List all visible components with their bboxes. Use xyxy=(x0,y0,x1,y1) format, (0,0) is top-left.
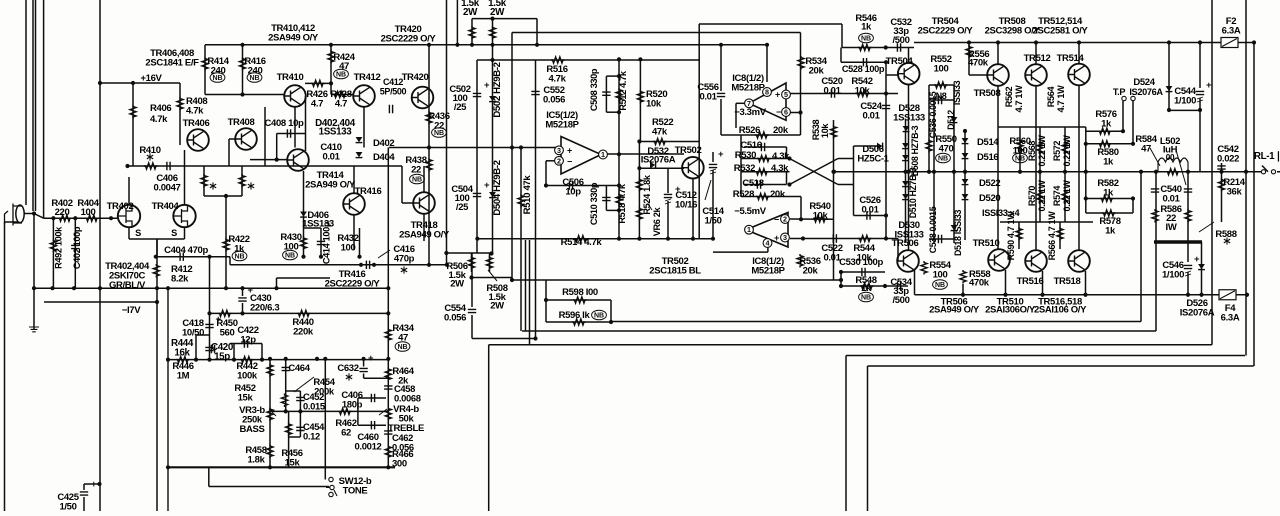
svg-text:10k: 10k xyxy=(857,253,873,264)
svg-text:2W: 2W xyxy=(490,301,504,312)
svg-text:R510 47k: R510 47k xyxy=(522,175,533,215)
svg-text:R524 1.8k: R524 1.8k xyxy=(642,174,652,214)
svg-text:GR/BL/V: GR/BL/V xyxy=(109,280,146,291)
svg-text:3: 3 xyxy=(557,146,561,155)
svg-text:IW: IW xyxy=(1166,222,1177,233)
svg-text:D510 HZ7B-3: D510 HZ7B-3 xyxy=(908,167,918,218)
svg-text:BASS: BASS xyxy=(240,424,265,435)
svg-text:47: 47 xyxy=(1141,144,1151,155)
svg-text:/25: /25 xyxy=(456,202,469,213)
svg-text:/500: /500 xyxy=(892,35,909,46)
svg-text:16k: 16k xyxy=(174,348,190,359)
svg-text:4.3k: 4.3k xyxy=(772,151,790,162)
svg-text:300: 300 xyxy=(392,459,407,470)
svg-text:R568: R568 xyxy=(1027,141,1037,161)
svg-text:TR510: TR510 xyxy=(973,238,1000,249)
svg-text:240: 240 xyxy=(248,66,263,77)
svg-text:C508 330p: C508 330p xyxy=(589,68,599,111)
svg-text:+16V: +16V xyxy=(140,73,162,84)
svg-text:100: 100 xyxy=(933,270,948,281)
svg-text:100: 100 xyxy=(1013,146,1028,157)
svg-text:220: 220 xyxy=(55,207,70,218)
svg-text:6: 6 xyxy=(784,108,788,117)
svg-text:M5218P: M5218P xyxy=(545,120,579,131)
svg-text:2SA949 O/Y: 2SA949 O/Y xyxy=(929,304,980,315)
svg-text:D520: D520 xyxy=(979,193,1000,204)
svg-text:2SA949 O/Y: 2SA949 O/Y xyxy=(399,230,450,241)
svg-text:1.8k: 1.8k xyxy=(247,455,265,466)
svg-text:22: 22 xyxy=(411,165,421,176)
svg-text:1k: 1k xyxy=(1103,188,1114,199)
svg-text:−5.5mV: −5.5mV xyxy=(734,206,766,217)
svg-text:R596 Ik: R596 Ik xyxy=(559,310,591,321)
svg-text:R564: R564 xyxy=(1046,85,1056,107)
svg-text:2W: 2W xyxy=(490,7,505,18)
svg-text:560: 560 xyxy=(220,328,235,339)
svg-text:D404: D404 xyxy=(373,152,395,163)
svg-text:C518: C518 xyxy=(742,178,763,189)
svg-text:TR514: TR514 xyxy=(1057,53,1085,64)
svg-text:C528 100p: C528 100p xyxy=(842,64,885,74)
svg-text:240: 240 xyxy=(211,66,226,77)
svg-text:C536 0.0015: C536 0.0015 xyxy=(928,91,938,138)
svg-text:10/50: 10/50 xyxy=(182,328,204,339)
svg-text:2SC1815 BL: 2SC1815 BL xyxy=(649,266,701,277)
svg-text:100: 100 xyxy=(341,243,356,254)
svg-text:+: + xyxy=(718,149,724,160)
svg-text:1/100: 1/100 xyxy=(1174,96,1196,107)
svg-text:3: 3 xyxy=(783,233,787,242)
svg-text:0.01: 0.01 xyxy=(322,152,340,163)
svg-text:2SA949 O/Y: 2SA949 O/Y xyxy=(305,180,356,191)
svg-text:0.015: 0.015 xyxy=(303,401,325,412)
svg-text:M5218P: M5218P xyxy=(731,83,765,94)
svg-text:100: 100 xyxy=(284,242,299,253)
svg-text:R518 4.7k: R518 4.7k xyxy=(617,183,627,223)
svg-text:TONE: TONE xyxy=(343,486,368,497)
svg-text:4.7k: 4.7k xyxy=(548,74,566,85)
svg-text:D518 ISSI33: D518 ISSI33 xyxy=(953,210,963,256)
svg-text:0.0068: 0.0068 xyxy=(394,393,421,404)
svg-text:2: 2 xyxy=(557,156,561,165)
svg-text:62: 62 xyxy=(341,428,351,439)
svg-text:TR402: TR402 xyxy=(107,201,134,212)
svg-text:0.12: 0.12 xyxy=(303,431,320,442)
svg-text:S: S xyxy=(135,228,141,238)
svg-text:0.01: 0.01 xyxy=(699,92,717,103)
svg-text:R512 4.7k: R512 4.7k xyxy=(618,70,628,110)
svg-text:1SS133: 1SS133 xyxy=(893,113,925,124)
svg-text:10k: 10k xyxy=(820,123,830,139)
svg-text:TR406: TR406 xyxy=(183,118,210,129)
svg-text:1k: 1k xyxy=(1101,119,1112,130)
svg-text:C404 470p: C404 470p xyxy=(164,245,208,256)
svg-text:36k: 36k xyxy=(1227,187,1243,198)
svg-text:R588: R588 xyxy=(1215,229,1236,240)
svg-text:4.7 1W: 4.7 1W xyxy=(1056,85,1066,113)
svg-text:+: + xyxy=(368,353,374,364)
svg-text:TR420: TR420 xyxy=(402,72,429,83)
svg-text:0.0012: 0.0012 xyxy=(355,442,382,453)
svg-text:0.22 1W: 0.22 1W xyxy=(1062,135,1072,167)
svg-text:C632: C632 xyxy=(337,363,358,374)
svg-text:470: 470 xyxy=(939,144,954,155)
svg-text:IS2076A: IS2076A xyxy=(1129,87,1163,97)
svg-text:C510 330p: C510 330p xyxy=(589,182,599,225)
svg-text:15p: 15p xyxy=(214,352,230,363)
svg-text:0.22 1W: 0.22 1W xyxy=(1037,135,1047,167)
svg-text:TR518: TR518 xyxy=(1054,276,1081,287)
svg-text:M5218P: M5218P xyxy=(751,266,785,277)
svg-text:00: 00 xyxy=(1166,153,1175,162)
svg-text:R562: R562 xyxy=(1004,86,1014,107)
svg-text:4: 4 xyxy=(766,239,770,248)
svg-text:C414 100p: C414 100p xyxy=(322,221,332,264)
svg-text:D512: D512 xyxy=(946,110,956,130)
svg-text:10k: 10k xyxy=(646,99,662,110)
svg-text:20k: 20k xyxy=(809,66,825,77)
svg-text:TR410: TR410 xyxy=(277,72,304,83)
svg-text:4.7 1W: 4.7 1W xyxy=(1014,85,1024,113)
svg-text:−3.3mV: −3.3mV xyxy=(734,107,766,118)
svg-text:470k: 470k xyxy=(968,57,989,68)
svg-text:0.056: 0.056 xyxy=(444,313,466,324)
svg-text:0.01: 0.01 xyxy=(823,253,841,264)
svg-text:12p: 12p xyxy=(240,335,256,346)
svg-text:1: 1 xyxy=(747,225,751,234)
svg-text:22: 22 xyxy=(434,121,444,132)
svg-text:D504 HZ9B-2: D504 HZ9B-2 xyxy=(492,160,503,215)
svg-text:2SC1841 E/F: 2SC1841 E/F xyxy=(145,58,199,69)
svg-text:1/50: 1/50 xyxy=(704,216,721,227)
svg-text:−: − xyxy=(774,215,779,225)
svg-text:/500: /500 xyxy=(892,295,909,306)
svg-text:1k: 1k xyxy=(861,21,872,32)
svg-text:TR502: TR502 xyxy=(675,145,702,156)
svg-text:R406: R406 xyxy=(150,103,171,114)
svg-text:20k: 20k xyxy=(803,266,819,277)
svg-text:5: 5 xyxy=(784,90,788,99)
svg-text:R570: R570 xyxy=(1027,186,1037,206)
svg-text:180p: 180p xyxy=(342,400,363,411)
svg-text:0.0047: 0.0047 xyxy=(154,183,181,194)
svg-text:1/50: 1/50 xyxy=(59,502,76,511)
svg-text:VR6 2k: VR6 2k xyxy=(652,206,662,236)
svg-text:8: 8 xyxy=(765,88,769,97)
svg-text:1/100: 1/100 xyxy=(1162,270,1184,281)
svg-text:TR504: TR504 xyxy=(886,56,914,67)
svg-text:0.22 1W: 0.22 1W xyxy=(1037,180,1047,212)
svg-text:470p: 470p xyxy=(394,254,415,265)
svg-text:C412: C412 xyxy=(383,77,403,87)
svg-text:2SA949 O/Y: 2SA949 O/Y xyxy=(268,33,319,44)
svg-text:R528: R528 xyxy=(733,189,754,200)
svg-text:15k: 15k xyxy=(238,393,254,404)
svg-text:R526: R526 xyxy=(739,125,760,136)
svg-text:4.3k: 4.3k xyxy=(771,163,789,174)
svg-text:47: 47 xyxy=(398,333,408,344)
svg-text:100k: 100k xyxy=(237,371,258,382)
svg-text:0.22 1W: 0.22 1W xyxy=(1062,180,1072,212)
svg-text:100: 100 xyxy=(934,64,949,75)
svg-text:4.7k: 4.7k xyxy=(186,106,204,117)
svg-text:2SC2229 O/Y: 2SC2229 O/Y xyxy=(918,26,974,37)
svg-text:10k: 10k xyxy=(855,86,871,97)
svg-text:4.7k: 4.7k xyxy=(150,114,168,125)
svg-text:R566 4.7 1W: R566 4.7 1W xyxy=(1047,211,1057,261)
svg-text:20k: 20k xyxy=(770,189,786,200)
svg-text:8.2k: 8.2k xyxy=(171,274,189,285)
svg-text:D402: D402 xyxy=(373,138,394,149)
svg-text:2SC2229 O/Y: 2SC2229 O/Y xyxy=(325,279,381,290)
svg-text:470k: 470k xyxy=(969,278,990,289)
svg-text:+: + xyxy=(775,90,780,100)
svg-text:/25: /25 xyxy=(454,102,467,113)
svg-text:6.3A: 6.3A xyxy=(1221,313,1240,324)
svg-text:C464: C464 xyxy=(288,363,310,374)
svg-text:1: 1 xyxy=(601,150,605,159)
svg-text:10k: 10k xyxy=(813,211,829,222)
svg-text:D522: D522 xyxy=(979,178,1000,189)
svg-text:C402 100p: C402 100p xyxy=(72,226,82,269)
svg-text:R572: R572 xyxy=(1052,141,1062,161)
svg-text:TR506: TR506 xyxy=(892,238,919,249)
svg-text:20k: 20k xyxy=(773,125,789,136)
svg-text:TR412: TR412 xyxy=(354,72,381,83)
svg-text:2SC2229 O/Y: 2SC2229 O/Y xyxy=(381,34,437,45)
svg-text:C408 10p: C408 10p xyxy=(265,118,304,129)
svg-text:2SC2581 O/Y: 2SC2581 O/Y xyxy=(1033,26,1089,37)
svg-text:1k: 1k xyxy=(234,244,245,255)
svg-text:D514: D514 xyxy=(977,137,999,148)
svg-text:10p: 10p xyxy=(565,187,581,198)
svg-text:2SAI106 O/Y: 2SAI106 O/Y xyxy=(1034,304,1087,315)
svg-text:1SS133: 1SS133 xyxy=(319,127,353,138)
svg-text:100: 100 xyxy=(81,207,96,218)
svg-text:TR508: TR508 xyxy=(974,88,1001,99)
svg-text:6.3A: 6.3A xyxy=(1222,26,1241,37)
svg-text:5P/500: 5P/500 xyxy=(380,87,407,97)
svg-text:0.01: 0.01 xyxy=(861,205,879,216)
svg-text:−: − xyxy=(776,107,781,117)
svg-text:1k: 1k xyxy=(1103,157,1114,168)
svg-text:1k: 1k xyxy=(1105,226,1116,237)
svg-text:TR404: TR404 xyxy=(152,201,180,212)
svg-text:R574: R574 xyxy=(1052,186,1062,206)
svg-text:0.01: 0.01 xyxy=(862,111,880,122)
svg-text:HZ5C-1: HZ5C-1 xyxy=(857,154,889,165)
svg-text:10/16: 10/16 xyxy=(675,200,697,211)
svg-text:2W: 2W xyxy=(450,279,464,290)
svg-text:R492 100k: R492 100k xyxy=(54,226,64,269)
svg-text:D516: D516 xyxy=(977,152,998,163)
svg-text:2W: 2W xyxy=(463,7,478,18)
svg-text:0.022: 0.022 xyxy=(1217,154,1239,165)
svg-text:+: + xyxy=(1194,254,1200,265)
svg-text:0.056: 0.056 xyxy=(543,95,565,106)
svg-text:47k: 47k xyxy=(652,127,668,138)
svg-text:15k: 15k xyxy=(285,458,301,469)
svg-text:+: + xyxy=(567,146,572,156)
svg-text:0.01: 0.01 xyxy=(823,86,841,97)
svg-text:+: + xyxy=(1206,80,1212,91)
svg-text:1k: 1k xyxy=(861,283,872,294)
svg-text:R514 4.7k: R514 4.7k xyxy=(561,237,603,248)
svg-text:IS2076A: IS2076A xyxy=(641,154,676,165)
svg-text:R530: R530 xyxy=(735,150,756,161)
svg-text:TR512: TR512 xyxy=(1024,53,1051,64)
svg-text:TR516: TR516 xyxy=(1017,276,1044,287)
svg-text:1M: 1M xyxy=(177,371,190,382)
svg-text:S: S xyxy=(171,228,177,238)
svg-text:R590 4.7 1W: R590 4.7 1W xyxy=(1006,211,1016,261)
svg-text:TR416: TR416 xyxy=(355,186,382,197)
svg-text:4.7: 4.7 xyxy=(311,99,323,110)
svg-text:−: − xyxy=(567,157,572,167)
svg-text:R410: R410 xyxy=(139,145,160,156)
svg-text:RL-1❘: RL-1❘ xyxy=(1254,151,1280,162)
svg-text:0.01: 0.01 xyxy=(1162,194,1180,205)
svg-text:C538 0.0015: C538 0.0015 xyxy=(928,206,938,253)
svg-text:220k: 220k xyxy=(293,327,314,338)
svg-text:TR408: TR408 xyxy=(228,117,255,128)
svg-text:R532: R532 xyxy=(734,163,755,174)
svg-text:+: + xyxy=(484,180,490,191)
svg-text:47: 47 xyxy=(339,61,349,72)
svg-text:+: + xyxy=(484,80,490,91)
svg-text:220/6.3: 220/6.3 xyxy=(250,303,279,314)
svg-text:ISSI33: ISSI33 xyxy=(952,80,962,105)
svg-text:+: + xyxy=(774,233,779,243)
svg-text:T.P: T.P xyxy=(1113,87,1125,97)
svg-text:2SAI306O/Y: 2SAI306O/Y xyxy=(985,304,1036,315)
svg-text:4.7: 4.7 xyxy=(335,99,347,110)
svg-text:−I7V: −I7V xyxy=(122,305,141,316)
svg-text:2: 2 xyxy=(783,215,787,224)
svg-text:R598 I00: R598 I00 xyxy=(562,287,598,298)
svg-text:IS2076A: IS2076A xyxy=(1180,308,1215,319)
svg-text:D502 HZ9B-2: D502 HZ9B-2 xyxy=(492,62,503,117)
svg-text:+: + xyxy=(91,479,97,490)
